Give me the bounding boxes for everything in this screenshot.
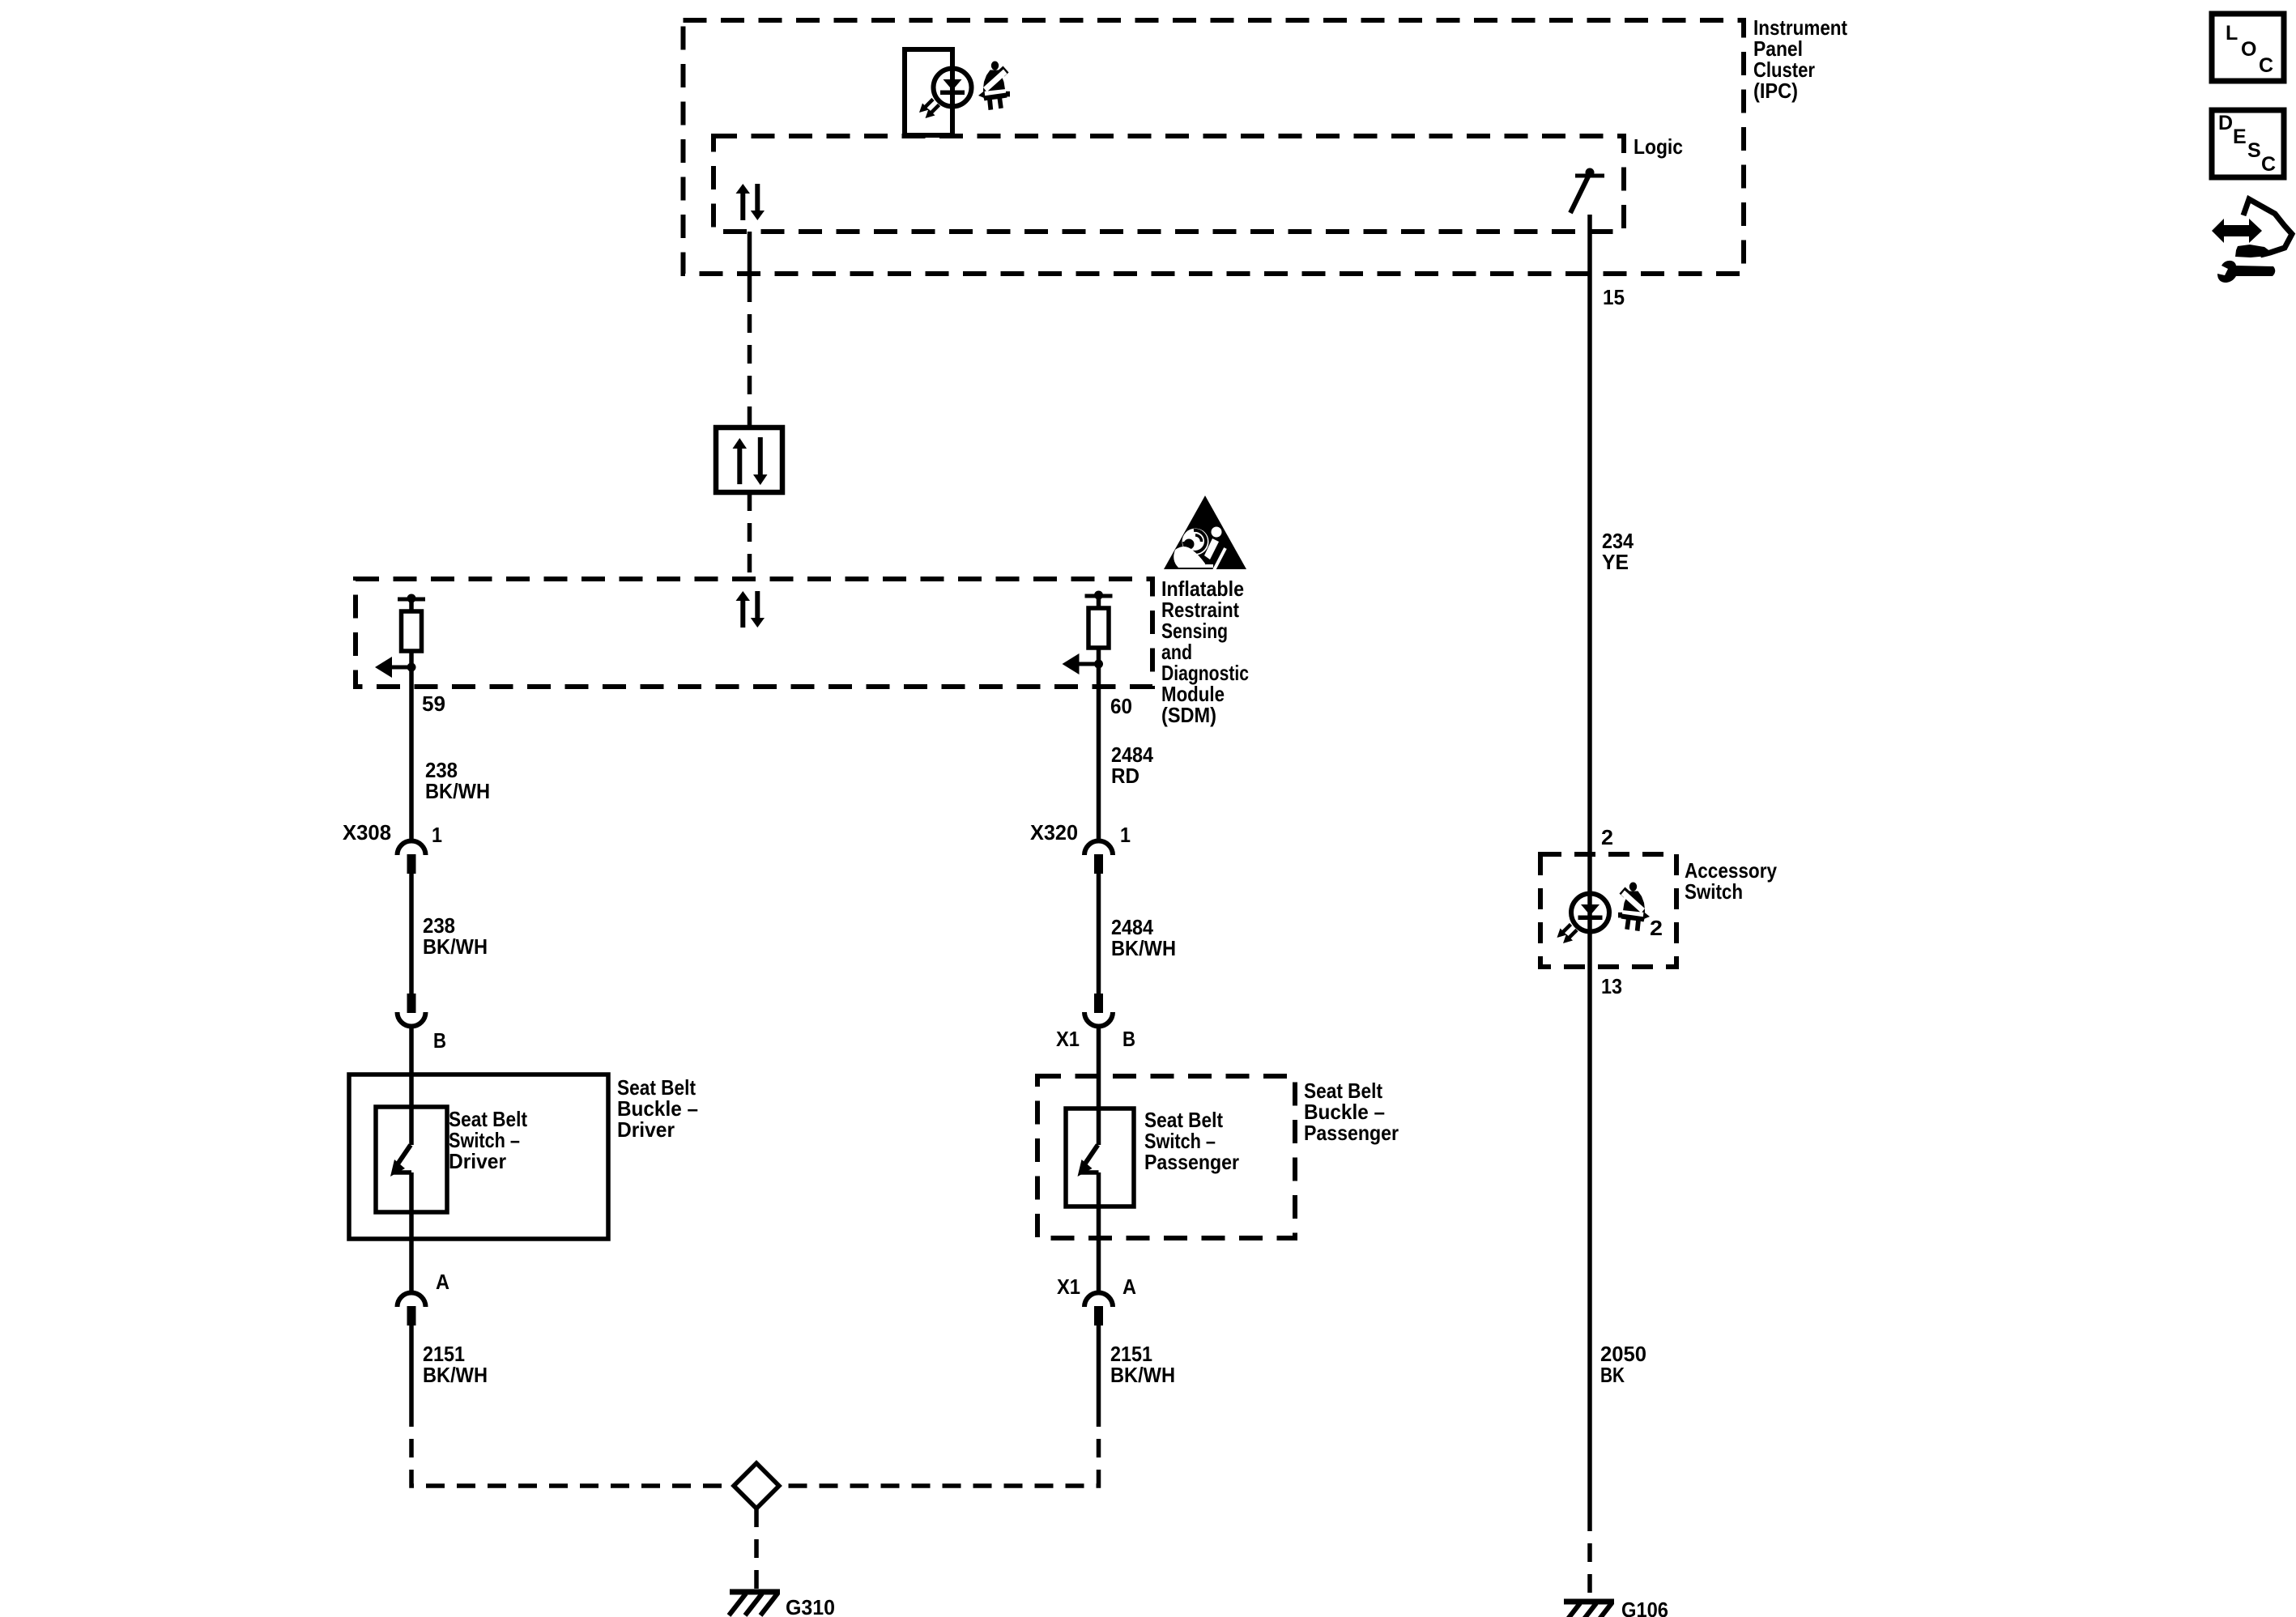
svg-text:(SDM): (SDM) [1161, 703, 1216, 727]
svg-text:1: 1 [1120, 823, 1131, 847]
label X308 / 1 [343, 820, 442, 847]
box: Inflatable Restraint Sensing and Diagnostic Module (SDM), dashed [356, 579, 1152, 687]
svg-text:Driver: Driver [617, 1117, 675, 1142]
box: Seat Belt Buckle - Passenger (dashed) [1037, 1076, 1295, 1238]
icon: LOC reference box [2212, 14, 2284, 81]
wire: dashed to splice (driver side) [411, 1408, 731, 1486]
connector X308 pin 1 [398, 841, 426, 874]
resistor R2: passenger circuit pull-up in SDM [1063, 591, 1113, 675]
svg-text:BK/WH: BK/WH [1110, 1363, 1175, 1387]
label: SDM [1161, 577, 1249, 727]
wire: dashed splice to ground G310 [754, 1508, 759, 1590]
svg-text:X1: X1 [1057, 1274, 1080, 1299]
wire: logic box to IPC edge (serial data) [748, 232, 752, 283]
wire: X320 to buckle connector X1 B (2484 BK/WH) [1097, 874, 1101, 994]
label: Seat Belt Buckle - Passenger [1304, 1079, 1399, 1145]
box: Seat Belt Switch - Passenger (inner solid) [1066, 1108, 1134, 1206]
svg-text:A: A [436, 1270, 449, 1294]
symbol: serial data connector box with arrows [716, 428, 782, 492]
switch S3: seat belt switch passenger [1078, 1145, 1099, 1177]
bidirectional data arrows inside Logic box [736, 184, 765, 220]
connector terminal X1 A (passenger buckle) [1084, 1293, 1113, 1326]
icon: seat belt telltale (accessory) [1618, 883, 1650, 932]
svg-text:1: 1 [432, 823, 442, 847]
wire label 2151 BK/WH (driver) [423, 1342, 488, 1387]
svg-text:13: 13 [1601, 974, 1622, 998]
svg-text:S: S [2247, 139, 2261, 162]
label: Seat Belt Switch - Driver [449, 1107, 527, 1173]
switch S1: logic output driver switch [1570, 168, 1604, 214]
connector terminal A (driver buckle) [398, 1293, 426, 1326]
box: Accessory Switch (dashed) [1540, 854, 1676, 967]
wire: SDM pin 60 to connector X320 (2484 RD) [1097, 664, 1101, 841]
switch S2: seat belt switch driver [390, 1145, 411, 1177]
svg-text:YE: YE [1602, 550, 1629, 574]
box: Seat Belt Switch - Driver (inner solid) [376, 1107, 447, 1212]
svg-text:2: 2 [1601, 825, 1613, 849]
connector terminal X1 B (passenger buckle) [1084, 994, 1113, 1027]
ground G106 [1563, 1602, 1614, 1617]
icon: diagnostic arrow and wrench [2212, 199, 2292, 283]
wire label 2050 BK [1600, 1342, 1646, 1387]
box: Instrument Panel Cluster (IPC), dashed [684, 20, 1744, 274]
wire label 2151 BK/WH (passenger) [1110, 1342, 1175, 1387]
wire label 234 YE [1602, 529, 1634, 574]
wire: X308 to buckle connector B (238 BK/WH) [409, 874, 414, 994]
wire: into driver buckle [409, 1027, 414, 1145]
connector terminal B (driver buckle) [398, 994, 426, 1027]
box: Logic (inside IPC), dashed [714, 136, 1624, 232]
svg-text:Logic: Logic [1634, 134, 1683, 159]
bidirectional data arrows inside SDM [736, 591, 765, 628]
label: Accessory Switch [1685, 858, 1777, 904]
icon: seat belt telltale (mirrored) [978, 62, 1010, 111]
svg-text:A: A [1122, 1274, 1136, 1299]
svg-text:C: C [2259, 54, 2273, 77]
wire: 2151 BK/WH solid segment [409, 1326, 414, 1408]
svg-text:Driver: Driver [449, 1149, 506, 1173]
svg-text:Passenger: Passenger [1304, 1121, 1399, 1145]
wire: dashed serial data link upper [748, 283, 752, 428]
ground G310 [729, 1592, 780, 1615]
svg-text:BK/WH: BK/WH [425, 779, 490, 803]
svg-text:C: C [2261, 153, 2276, 176]
svg-text:BK/WH: BK/WH [1111, 936, 1176, 960]
LED U2: accessory switch seat belt indicator [1557, 894, 1610, 944]
label: Seat Belt Switch - Passenger [1144, 1108, 1239, 1174]
label X1 / B [1056, 1027, 1135, 1051]
svg-text:O: O [2241, 38, 2256, 61]
svg-text:BK: BK [1600, 1363, 1625, 1387]
connector X320 pin 1 [1084, 841, 1113, 874]
svg-text:15: 15 [1603, 285, 1625, 309]
wire: switch to connector X1 A [1097, 1172, 1101, 1292]
wire label 238 BK/WH (lower) [423, 913, 488, 959]
svg-text:RD: RD [1111, 764, 1139, 788]
label: Seat Belt Buckle - Driver [617, 1075, 698, 1142]
svg-text:L: L [2226, 22, 2238, 45]
svg-text:E: E [2233, 126, 2247, 148]
svg-text:X320: X320 [1030, 820, 1078, 845]
box: Seat Belt Buckle - Driver (solid) [349, 1074, 608, 1239]
wire: SDM pin 59 to connector X308 (238 BK/WH) [409, 667, 414, 841]
svg-text:BK/WH: BK/WH [423, 934, 488, 959]
LED U1: seat belt warning indicator [919, 69, 972, 119]
label X1 / A [1057, 1274, 1136, 1299]
svg-text:Passenger: Passenger [1144, 1150, 1239, 1174]
svg-text:BK/WH: BK/WH [423, 1363, 488, 1387]
wire: IPC pin 15 / 234 YE down to accessory switch and G106 [1587, 215, 1592, 1513]
icon: airbag warning triangle [1164, 496, 1246, 570]
wire: dashed to ground G106 [1587, 1513, 1592, 1600]
wire: dashed serial data link lower [748, 492, 752, 580]
wire label 238 BK/WH (upper) [425, 758, 490, 803]
wire: 2151 BK/WH solid segment (passenger) [1097, 1326, 1101, 1408]
indicator lamp housing rectangle [905, 49, 952, 135]
icon: DESC reference box [2212, 110, 2284, 177]
svg-text:B: B [1122, 1027, 1135, 1051]
svg-text:B: B [433, 1028, 446, 1053]
resistor R1: driver circuit pull-up in SDM [375, 594, 425, 679]
splice node: ground splice diamond [734, 1463, 779, 1508]
svg-text:G310: G310 [786, 1595, 835, 1617]
wire: into passenger buckle [1097, 1027, 1101, 1145]
svg-text:2: 2 [1650, 916, 1663, 940]
wire label 2484 RD [1111, 743, 1153, 788]
svg-text:Switch: Switch [1685, 879, 1743, 904]
wire: switch to connector A [409, 1172, 414, 1292]
label: Instrument Panel Cluster (IPC) [1753, 15, 1847, 103]
svg-text:G106: G106 [1621, 1598, 1668, 1617]
svg-text:D: D [2218, 112, 2233, 134]
svg-text:59: 59 [422, 691, 445, 716]
svg-text:X308: X308 [343, 820, 391, 845]
label X320 / 1 [1030, 820, 1131, 847]
wire: dashed to splice (passenger side) [782, 1408, 1099, 1486]
svg-text:X1: X1 [1056, 1027, 1080, 1051]
wire label 2484 BK/WH [1111, 915, 1176, 960]
svg-text:60: 60 [1110, 694, 1132, 718]
svg-text:(IPC): (IPC) [1753, 79, 1798, 103]
